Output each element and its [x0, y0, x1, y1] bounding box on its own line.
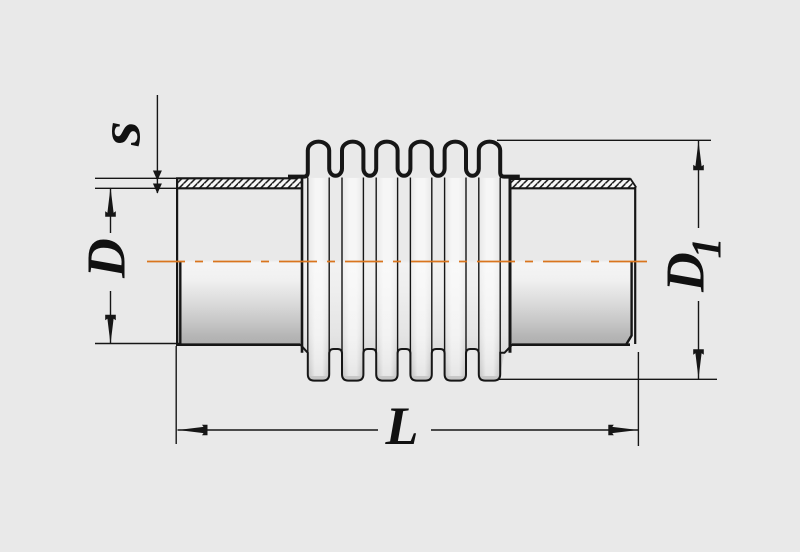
svg-text:L: L — [385, 396, 419, 456]
svg-text:1: 1 — [685, 238, 731, 259]
svg-text:s: s — [87, 121, 152, 147]
svg-text:D: D — [76, 238, 137, 279]
